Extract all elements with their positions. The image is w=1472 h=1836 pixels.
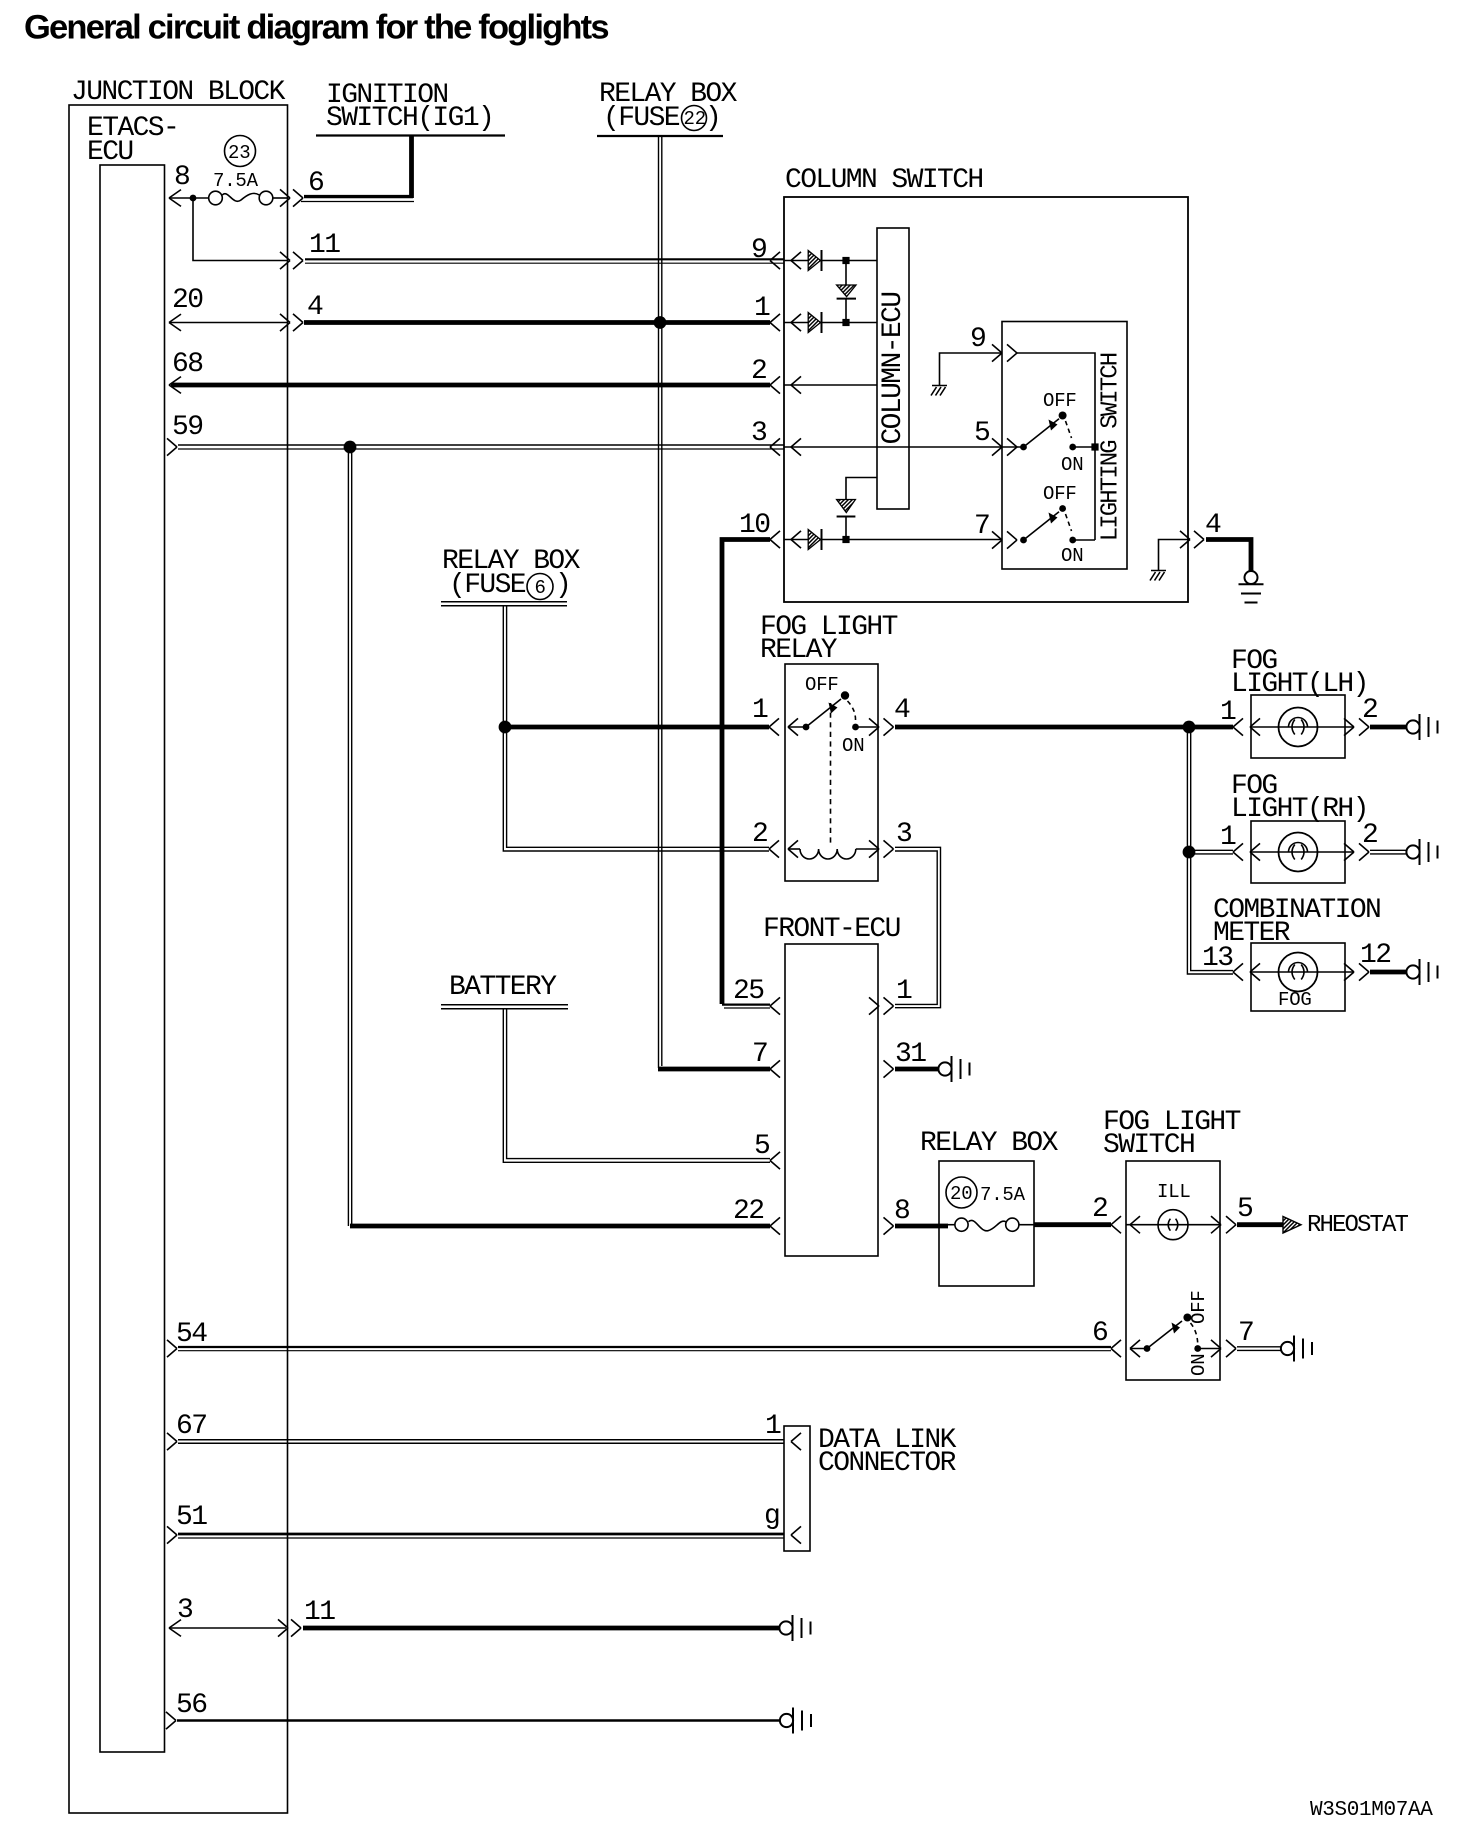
svg-text:1: 1 [752,695,768,726]
node pin9-diode junction [842,257,849,264]
fog light LH pin 1 [1220,697,1354,736]
wire fuse 20 to fog light switch pin 2 [1034,1194,1111,1225]
fog light relay pin 1 [752,695,806,736]
earth ground G1 [1239,571,1264,603]
fog light relay pin 2 [752,819,798,858]
branch wire fuse6 to relay pin 2 [503,727,769,851]
svg-text:8: 8 [894,1196,909,1227]
ETACS pin 68 [169,349,202,393]
svg-text:1: 1 [1220,697,1236,728]
svg-text:JUNCTION BLOCK: JUNCTION BLOCK [71,77,286,108]
svg-text:11: 11 [309,230,340,261]
svg-text:1: 1 [754,293,770,324]
COLUMN-ECU box [877,228,909,509]
lighting switch contact SW1 [1020,390,1095,476]
combination meter pin 12 [1344,940,1407,981]
fog light RH [1231,771,1368,883]
fog switch contact [1144,1314,1220,1352]
junction relay wire / LH [1183,721,1196,734]
column switch pin 2 [751,356,877,394]
svg-text:13: 13 [1202,943,1233,974]
wire pin 4 to earth ground [1206,540,1251,571]
combination meter [1213,895,1380,1011]
wire pin 5 to rheostat [1237,1212,1409,1239]
COLUMN SWITCH box [784,165,1188,602]
svg-text:10: 10 [739,510,770,541]
relay actuation dashed link [830,703,832,843]
relay box fuse 22 [597,79,738,136]
svg-text:COLUMN SWITCH: COLUMN SWITCH [785,165,983,196]
fog light switch pin 5 [1211,1194,1253,1233]
relay coil [788,849,878,859]
FOG LIGHT SWITCH box [1103,1107,1241,1380]
lighting switch box [1002,322,1127,570]
junction block pin 11 connector chevrons [280,230,340,269]
svg-text:OFF: OFF [1188,1290,1210,1324]
svg-text:51: 51 [176,1502,207,1533]
svg-text:23: 23 [228,142,250,164]
svg-text:2: 2 [1362,695,1377,726]
ETACS pin 67 to data link connector [167,1411,784,1450]
wire from fuse 6 down [503,606,506,727]
svg-text:25: 25 [733,976,764,1007]
svg-text:(FUSE: (FUSE [603,103,680,134]
svg-text:COLUMN-ECU: COLUMN-ECU [878,292,909,444]
wire pin 59 to column switch pin 3 [178,445,784,449]
junction fuse6 / relay pin 1 [499,721,512,734]
svg-text:9: 9 [970,324,985,355]
ON label (rotated) [1188,1354,1210,1376]
svg-text:3: 3 [751,418,767,449]
svg-text:): ) [555,570,570,601]
svg-text:6: 6 [308,168,323,199]
svg-text:20: 20 [172,285,203,316]
node lighting switch feed junction [1091,443,1098,450]
fog light switch pin 2 chevrons [1111,1216,1140,1233]
fog light relay pin 3 [869,819,912,858]
junction block pin 4 connector chevrons [280,292,323,331]
wire pin 6 to ignition switch [301,136,414,202]
wire pin 4 to column switch pin 1 [304,320,770,325]
node pin10-diode junction [842,536,849,543]
column switch pin 10 [739,510,801,548]
junction block pin 6 connector chevrons [280,168,323,207]
wire pin 11 to column switch pin 9 [305,259,784,263]
fog light switch pin 7 [1211,1318,1281,1357]
svg-text:RELAY BOX: RELAY BOX [920,1128,1059,1159]
combination meter pin 13 [1202,943,1354,981]
wire battery to front-ecu pin 5 [503,1009,770,1162]
column switch pin 1 [754,293,801,331]
ETACS pin 3 [169,1595,286,1636]
fuse 23 circuit: arrow, dot, fuse [169,190,288,207]
relay switch contacts [803,674,878,757]
svg-text:7.5A: 7.5A [213,170,259,192]
branch wire pin 59 down to front-ecu pin 22 [348,447,351,1226]
ground at pin 11 wire [779,1615,810,1641]
column switch pin 4 [1180,510,1221,548]
zener diode on pin 10 branch [837,478,877,540]
FOG LIGHT RELAY box [760,612,898,881]
svg-text:1: 1 [896,976,912,1007]
data link connector pin 1 [765,1411,801,1450]
svg-text:4: 4 [1205,510,1221,541]
svg-text:7: 7 [752,1039,767,1070]
svg-text:22: 22 [684,108,706,130]
junction RH branch [1183,846,1196,859]
ETACS pin 20 [169,285,288,331]
ground at RH [1406,839,1437,865]
fog light switch pin 6 [1092,1318,1147,1357]
svg-text:7.5A: 7.5A [980,1184,1026,1206]
wire relay pin 4 to fog lights [895,725,1233,730]
battery [441,972,568,1009]
relay box fuse 6 [441,546,581,606]
ILL lamp [1126,1181,1220,1240]
svg-text:RELAY: RELAY [760,635,838,666]
svg-text:7: 7 [1238,1318,1253,1349]
svg-text:CONNECTOR: CONNECTOR [818,1448,957,1479]
wire pin 11 internal [193,198,288,261]
ETACS-ECU box [87,113,178,1752]
svg-text:22: 22 [733,1196,763,1227]
lighting switch pin 5 [974,418,1017,456]
svg-text:ON: ON [1061,545,1083,567]
wire ETACS pin 54 to fog light switch pin 6 [167,1319,1111,1357]
wire relay pin 1 feed [505,725,769,730]
ground at fog switch pin 7 [1281,1336,1312,1362]
fog light RH pin 1 [1189,822,1354,861]
front-ecu pin 5 [754,1131,780,1169]
ground at pin 31 [938,1056,969,1082]
svg-text:56: 56 [176,1690,206,1721]
fog light RH pin 2 [1344,820,1407,861]
svg-text:W3S01M07AA: W3S01M07AA [1310,1799,1433,1822]
svg-text:RHEOSTAT: RHEOSTAT [1307,1212,1409,1239]
relay box (fuse 20) [920,1128,1059,1286]
diode D3 at pin 10 [784,529,1002,550]
svg-text:g: g [764,1501,779,1532]
ETACS pin 56 [166,1690,780,1729]
front-ecu pin 31 to ground [884,1039,939,1078]
svg-text:5: 5 [1237,1194,1253,1225]
front-ecu pin 1 [869,976,912,1015]
fog light LH pin 2 [1344,695,1407,736]
ground at LH [1406,714,1437,740]
FRONT-ECU box [763,914,900,1256]
ETACS pin 8 label [174,162,189,193]
wire pin 68 to column switch pin 2 [171,383,770,388]
svg-text:68: 68 [172,349,202,380]
front-ecu pin 25 [722,976,780,1015]
column switch pin 3 wire to lighting switch pin 5 [751,418,1024,456]
wire relay pin 3 to front-ecu pin 1 [895,847,941,1007]
svg-text:ON: ON [842,735,864,757]
svg-text:BATTERY: BATTERY [449,972,557,1003]
lamp FOG indicator [1278,953,1318,1012]
wire column pin 10 to front-ecu pin 25 [722,540,770,1005]
data link connector box [784,1425,957,1551]
ETACS pin 51 to data link connector [167,1502,784,1544]
junction node on pin 59 wire [344,441,357,454]
svg-text:3: 3 [896,819,912,850]
fog light LH [1231,646,1368,758]
svg-text:7: 7 [974,511,989,542]
svg-text:1: 1 [765,1411,781,1442]
front-ecu pin 7 [658,1039,780,1078]
front-ecu pin 8 [884,1196,949,1235]
svg-text:8: 8 [174,162,189,193]
svg-text:4: 4 [307,292,323,323]
svg-text:): ) [705,103,720,134]
ground at meter [1406,959,1437,985]
svg-text:FRONT-ECU: FRONT-ECU [763,914,900,945]
lighting switch contact SW2 [1020,483,1095,567]
svg-text:67: 67 [176,1411,206,1442]
svg-text:59: 59 [172,412,202,443]
zener diode between pin9 and pin1 lines [837,261,856,323]
svg-text:11: 11 [304,1597,335,1628]
front-ecu pin 22 [350,1196,780,1235]
svg-text:2: 2 [752,819,767,850]
svg-text:ILL: ILL [1157,1181,1191,1203]
svg-text:20: 20 [950,1183,972,1205]
lighting switch pin 9 [970,324,1095,540]
svg-text:General circuit diagram for th: General circuit diagram for the foglight… [24,9,608,47]
branch wire to RH and meter [1187,727,1233,974]
fuse 20 rating [946,1177,1026,1208]
drawing number [1310,1799,1433,1822]
lamp LH [1279,708,1318,747]
fuse 20 element [939,1218,1034,1231]
wire from fuse 22 (vertical double line) [659,137,662,1068]
svg-text:SWITCH(IG1): SWITCH(IG1) [326,103,493,134]
junction fuse22 to pin1 wire [654,316,667,329]
diode D1 at pin 9 [784,250,877,271]
lighting switch pin 7 [974,511,1017,549]
svg-text:2: 2 [751,356,766,387]
svg-text:FOG: FOG [1278,989,1312,1011]
ignition switch IG1 [316,80,505,136]
svg-text:OFF: OFF [1043,483,1077,505]
chassis ground for lighting switch feed [931,353,1002,396]
diode D2 at pin 1 [784,312,877,333]
ETACS pin 59 [167,412,202,456]
junction block box [69,77,288,1813]
svg-text:6: 6 [1092,1318,1107,1349]
svg-text:ON: ON [1061,454,1083,476]
svg-text:4: 4 [894,695,910,726]
svg-text:1: 1 [1220,822,1236,853]
svg-text:OFF: OFF [1043,390,1077,412]
svg-text:OFF: OFF [805,674,839,696]
fuse 23 rating label [213,136,259,193]
svg-text:2: 2 [1092,1194,1107,1225]
node pin1-diode junction [842,319,849,326]
junction block pin 11 (bottom) chevrons [278,1597,335,1637]
svg-text:5: 5 [754,1131,770,1162]
column switch pin 9 [751,235,801,269]
ground at pin 56 wire [780,1708,811,1734]
svg-text:31: 31 [895,1039,926,1070]
data link connector pin g [764,1501,801,1544]
svg-text:12: 12 [1360,940,1390,971]
svg-text:6: 6 [535,577,546,599]
svg-text:ECU: ECU [87,137,133,168]
svg-text:ON: ON [1188,1354,1210,1376]
wire pin 11 to ground [303,1626,780,1631]
svg-text:(FUSE: (FUSE [449,570,526,601]
svg-text:9: 9 [751,235,766,266]
svg-text:54: 54 [176,1319,207,1350]
svg-text:5: 5 [974,418,990,449]
svg-text:LIGHTING SWITCH: LIGHTING SWITCH [1098,353,1125,541]
svg-text:SWITCH: SWITCH [1103,1130,1194,1161]
svg-text:2: 2 [1362,820,1377,851]
lamp RH [1279,833,1318,872]
chassis ground at column switch pin 4 [1150,540,1188,581]
OFF label (rotated) [1188,1290,1210,1324]
fog light relay pin 4 [869,695,910,736]
